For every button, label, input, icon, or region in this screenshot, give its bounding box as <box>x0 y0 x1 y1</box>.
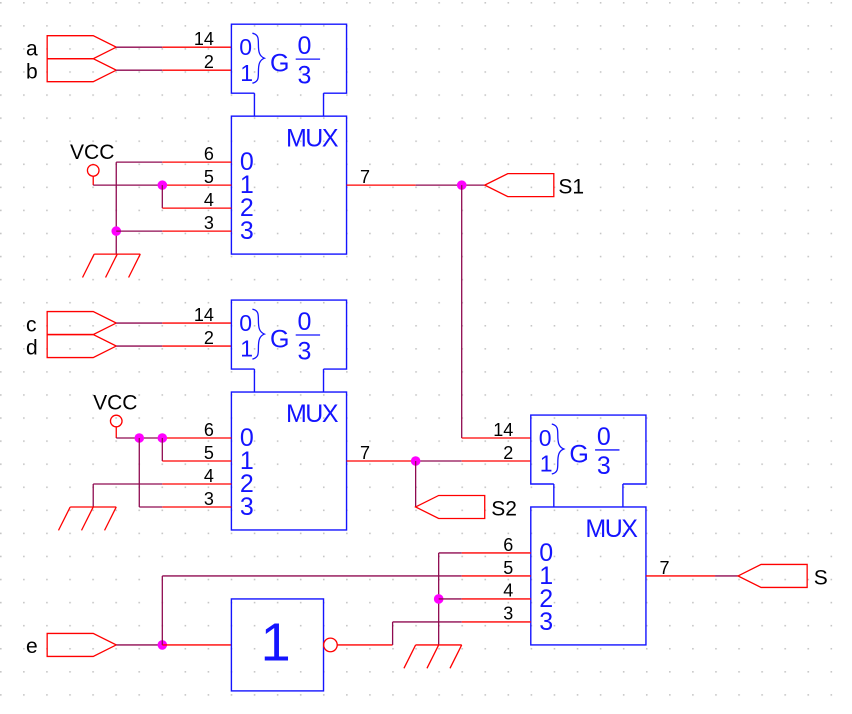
net e long wire to U3 (purple) <box>162 575 461 577</box>
inverter U4 body <box>231 599 323 691</box>
mux U2 common control block G 0/3 <box>231 300 346 392</box>
svg-text:3: 3 <box>503 604 513 624</box>
wire to U1 pin 4 (red) <box>162 207 231 209</box>
wire junction to U1 pin 5 (red) <box>162 184 231 186</box>
U1 output wire (red segment) <box>347 184 416 186</box>
ground2 vertical (purple) <box>92 484 94 507</box>
svg-text:14: 14 <box>493 420 513 440</box>
input port e <box>47 633 116 656</box>
svg-text:c: c <box>26 313 37 336</box>
wire b (red segment to U1 pin 2) <box>162 69 231 71</box>
net S1 wire (purple segment) <box>416 184 485 186</box>
wire b (purple segment) <box>116 69 162 71</box>
svg-text:0: 0 <box>539 425 552 451</box>
inverter output vertical up (purple) <box>392 622 394 645</box>
svg-text:d: d <box>26 336 38 359</box>
svg-text:5: 5 <box>204 443 214 463</box>
junction node e <box>158 640 168 650</box>
junction node S1 <box>457 180 467 190</box>
VCC wire to junction (purple) <box>93 184 162 186</box>
wire to pin 3 row (purple) <box>139 506 162 508</box>
svg-text:1: 1 <box>261 613 291 673</box>
wire c (red segment to U2 pin 14) <box>162 322 231 324</box>
net S2 vertical down (purple) <box>415 461 417 507</box>
net S1 to U3 pin 14 (red) <box>462 437 531 439</box>
svg-text:VCC: VCC <box>70 141 114 164</box>
svg-text:7: 7 <box>360 443 370 463</box>
svg-text:S: S <box>814 566 828 589</box>
svg-text:3: 3 <box>240 493 254 521</box>
ground net vertical (purple) <box>115 162 117 254</box>
svg-text:6: 6 <box>503 535 513 555</box>
mux U3 MUX body <box>531 507 646 645</box>
wire to U2 pin 6 (red) <box>162 437 231 439</box>
junction on VCC net at pin 5 row <box>158 180 168 190</box>
mux U3 common control block G 0/3 <box>531 415 646 507</box>
junction node S2 <box>411 456 421 466</box>
ground2 wire right (purple) <box>93 483 162 485</box>
svg-text:4: 4 <box>204 466 214 486</box>
net S wire (purple segment) <box>715 575 738 577</box>
mux U1 MUX body <box>231 116 346 254</box>
svg-text:3: 3 <box>539 608 553 636</box>
svg-text:1: 1 <box>240 336 253 362</box>
wire to U1 pin 3 (red) <box>162 230 231 232</box>
svg-text:3: 3 <box>298 61 312 89</box>
junction 1 vertical down (purple) <box>138 438 140 507</box>
svg-text:5: 5 <box>503 558 513 578</box>
ground symbol (U3 group) <box>404 645 462 668</box>
svg-text:MUX: MUX <box>585 515 638 543</box>
wire to U1 pin 6 (red) <box>162 161 231 163</box>
svg-text:6: 6 <box>204 144 214 164</box>
wire junction to right (purple) <box>116 230 162 232</box>
svg-text:b: b <box>26 60 38 83</box>
power symbol VCC (U2 group) <box>93 392 137 438</box>
wire to U3 pin 4 (red) <box>462 598 531 600</box>
svg-text:2: 2 <box>204 328 214 348</box>
inverter U4 output bubble <box>324 638 338 652</box>
wire to U2 pin 5 (red) <box>162 460 231 462</box>
svg-text:4: 4 <box>204 190 214 210</box>
input port a / input port b <box>47 36 116 82</box>
svg-text:0: 0 <box>298 32 312 60</box>
svg-text:G: G <box>270 50 289 78</box>
wire e (purple segment) <box>116 644 162 646</box>
wire a (red segment to U1 pin 14) <box>162 46 231 48</box>
wire junction to right (purple) <box>439 598 462 600</box>
junction at pin 6 row first <box>134 433 144 443</box>
wire to U2 pin 4 (red) <box>162 483 231 485</box>
svg-text:3: 3 <box>204 489 214 509</box>
inverter output wire (red) <box>337 644 392 646</box>
wire toward U3 pin 3 (purple) <box>393 621 462 623</box>
wire c (purple segment) <box>116 322 162 324</box>
junction on ground net at pin 3 row <box>111 226 121 236</box>
junction 2 vertical down (purple) <box>161 438 163 461</box>
svg-text:0: 0 <box>597 423 611 451</box>
U2 output wire (red segment) <box>347 460 416 462</box>
svg-text:4: 4 <box>503 581 513 601</box>
output port S2 <box>416 495 485 518</box>
svg-text:14: 14 <box>194 29 214 49</box>
svg-text:MUX: MUX <box>286 124 339 152</box>
wire e to inverter input (red) <box>162 644 231 646</box>
svg-text:e: e <box>26 635 38 658</box>
mux U1 common control block G 0/3 <box>231 24 346 116</box>
svg-text:7: 7 <box>659 558 669 578</box>
svg-text:G: G <box>270 326 289 354</box>
ground3 vertical (purple) <box>438 553 440 645</box>
svg-text:5: 5 <box>204 167 214 187</box>
svg-text:3: 3 <box>597 452 611 480</box>
svg-text:G: G <box>569 441 588 469</box>
wire junction down (purple) <box>161 185 163 208</box>
svg-text:1: 1 <box>240 60 253 86</box>
svg-text:S2: S2 <box>491 497 517 520</box>
net e vertical up (purple) <box>161 576 163 645</box>
svg-text:0: 0 <box>239 310 252 336</box>
svg-text:3: 3 <box>298 337 312 365</box>
svg-text:2: 2 <box>503 443 513 463</box>
mux U2 MUX body <box>231 392 346 530</box>
svg-text:VCC: VCC <box>93 392 137 415</box>
wire d (purple segment) <box>116 345 162 347</box>
net S2 wire (purple segment) <box>416 460 462 462</box>
svg-text:0: 0 <box>239 34 252 60</box>
svg-text:14: 14 <box>194 305 214 325</box>
svg-text:MUX: MUX <box>286 400 339 428</box>
net S2 to U3 pin 2 (red) <box>462 460 531 462</box>
svg-text:6: 6 <box>204 420 214 440</box>
power symbol VCC (U1 group) <box>70 141 114 185</box>
output port S1 <box>485 174 554 197</box>
wire to U2 pin 3 (red) <box>162 506 231 508</box>
svg-text:3: 3 <box>204 213 214 233</box>
svg-text:a: a <box>26 37 38 60</box>
svg-text:3: 3 <box>240 217 254 245</box>
wire to U3 pin 6 (red) <box>462 552 531 554</box>
svg-text:7: 7 <box>360 167 370 187</box>
wire d (red segment to U2 pin 2) <box>162 345 231 347</box>
wire a (purple segment) <box>116 46 162 48</box>
U3 output wire (red segment) <box>646 575 715 577</box>
VCC wire right (purple) <box>116 437 162 439</box>
svg-text:1: 1 <box>540 451 553 477</box>
ground symbol (U2 group) <box>58 507 116 530</box>
input port c / input port d <box>47 312 116 358</box>
output port S <box>738 564 807 587</box>
net S1 vertical down (purple) <box>461 185 463 438</box>
junction on ground3 net at pin 4 row <box>434 594 444 604</box>
ground symbol (U1 group) <box>83 254 141 277</box>
wire to U3 pin 3 (red) <box>462 621 531 623</box>
wire to U3 pin 5 (red) <box>462 575 531 577</box>
svg-text:2: 2 <box>204 52 214 72</box>
svg-text:S1: S1 <box>558 175 584 198</box>
ground net top wire (purple) <box>116 161 162 163</box>
ground3 net top wire (purple) <box>439 552 462 554</box>
junction at pin 6 row second <box>158 433 168 443</box>
svg-text:0: 0 <box>298 308 312 336</box>
